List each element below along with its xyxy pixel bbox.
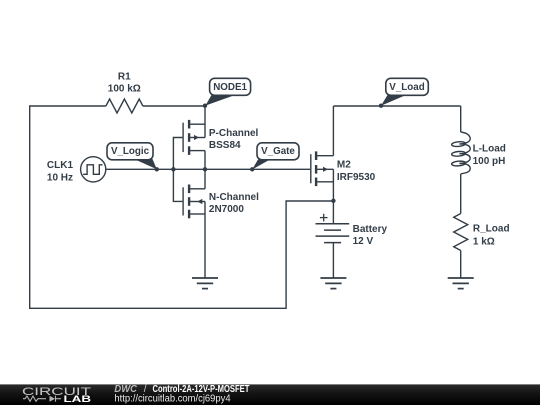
junction dots xyxy=(155,104,384,204)
node drain junction xyxy=(203,167,207,171)
svg-text:V_Gate: V_Gate xyxy=(261,146,295,157)
wire battery to ground xyxy=(332,242,334,277)
transistor M3 N-Channel 2N7000 xyxy=(183,185,205,219)
clock source CLK1 xyxy=(81,157,106,182)
logo squiggle resistor-diode xyxy=(23,396,61,402)
wire inductor to R_Load xyxy=(460,174,462,214)
wire CLK1 to M2 gate xyxy=(106,168,310,170)
node V_Load junction xyxy=(379,104,383,108)
transistor M2 IRF9530 xyxy=(311,151,334,186)
wire M2 source up to rail xyxy=(332,106,334,156)
svg-text:M2: M2 xyxy=(337,160,351,171)
flag V_Gate xyxy=(252,143,299,170)
transistor M1 P-Channel BSS84 xyxy=(183,120,205,155)
node V_Logic junction xyxy=(155,167,159,171)
svg-text:100 pH: 100 pH xyxy=(473,156,506,167)
flag V_Load xyxy=(381,78,428,105)
node gate bus junction xyxy=(171,167,175,171)
node V_Gate junction xyxy=(250,167,254,171)
svg-text:NODE1: NODE1 xyxy=(213,82,247,93)
wire M1 drain to junction xyxy=(204,151,206,170)
svg-text:L-Load: L-Load xyxy=(473,144,506,155)
wire battery top xyxy=(332,201,334,224)
svg-text:V_Logic: V_Logic xyxy=(111,146,150,157)
flag NODE1 xyxy=(205,78,250,105)
svg-text:R_Load: R_Load xyxy=(473,223,510,234)
svg-text:R1: R1 xyxy=(118,72,131,83)
wire M3 source to ground xyxy=(204,202,206,278)
svg-text:N-Channel: N-Channel xyxy=(209,192,259,203)
node NODE1 junction xyxy=(203,104,207,108)
svg-text:100 kΩ: 100 kΩ xyxy=(108,84,141,95)
ground under R_Load xyxy=(448,278,474,289)
wire NODE1 to M1 source xyxy=(204,106,206,138)
svg-text:V_Load: V_Load xyxy=(389,82,424,93)
svg-text:IRF9530: IRF9530 xyxy=(337,172,376,183)
svg-text:CLK1: CLK1 xyxy=(47,160,74,171)
svg-text:2N7000: 2N7000 xyxy=(209,204,244,215)
svg-text:12 V: 12 V xyxy=(353,236,374,247)
wire M2 drain down to battery xyxy=(332,169,334,201)
ground under battery xyxy=(320,278,346,289)
wire junction to M3 drain xyxy=(204,169,206,189)
wire gate bus xyxy=(173,138,182,202)
svg-text:P-Channel: P-Channel xyxy=(209,128,259,139)
wire rail to inductor xyxy=(460,106,462,132)
ground under M3 xyxy=(192,278,218,289)
resistor R_Load xyxy=(454,214,468,251)
svg-text:1 kΩ: 1 kΩ xyxy=(473,236,495,247)
flag V_Logic xyxy=(107,143,157,170)
svg-text:10 Hz: 10 Hz xyxy=(47,172,73,183)
wire R_Load to ground xyxy=(460,251,462,278)
svg-text:BSS84: BSS84 xyxy=(209,140,241,151)
battery V1 xyxy=(316,224,350,243)
wire left loop: battery+ to R1 xyxy=(30,106,334,308)
battery plus sign xyxy=(320,214,328,222)
node battery junction xyxy=(331,199,335,203)
wire R1 to NODE1 xyxy=(143,105,205,107)
svg-text:http://circuitlab.com/cj69py4: http://circuitlab.com/cj69py4 xyxy=(114,394,231,405)
resistor R1 xyxy=(106,99,143,113)
inductor L-Load xyxy=(451,132,470,174)
wire top rail xyxy=(333,105,460,107)
svg-text:Battery: Battery xyxy=(353,224,388,235)
svg-text:LAB: LAB xyxy=(64,394,92,405)
